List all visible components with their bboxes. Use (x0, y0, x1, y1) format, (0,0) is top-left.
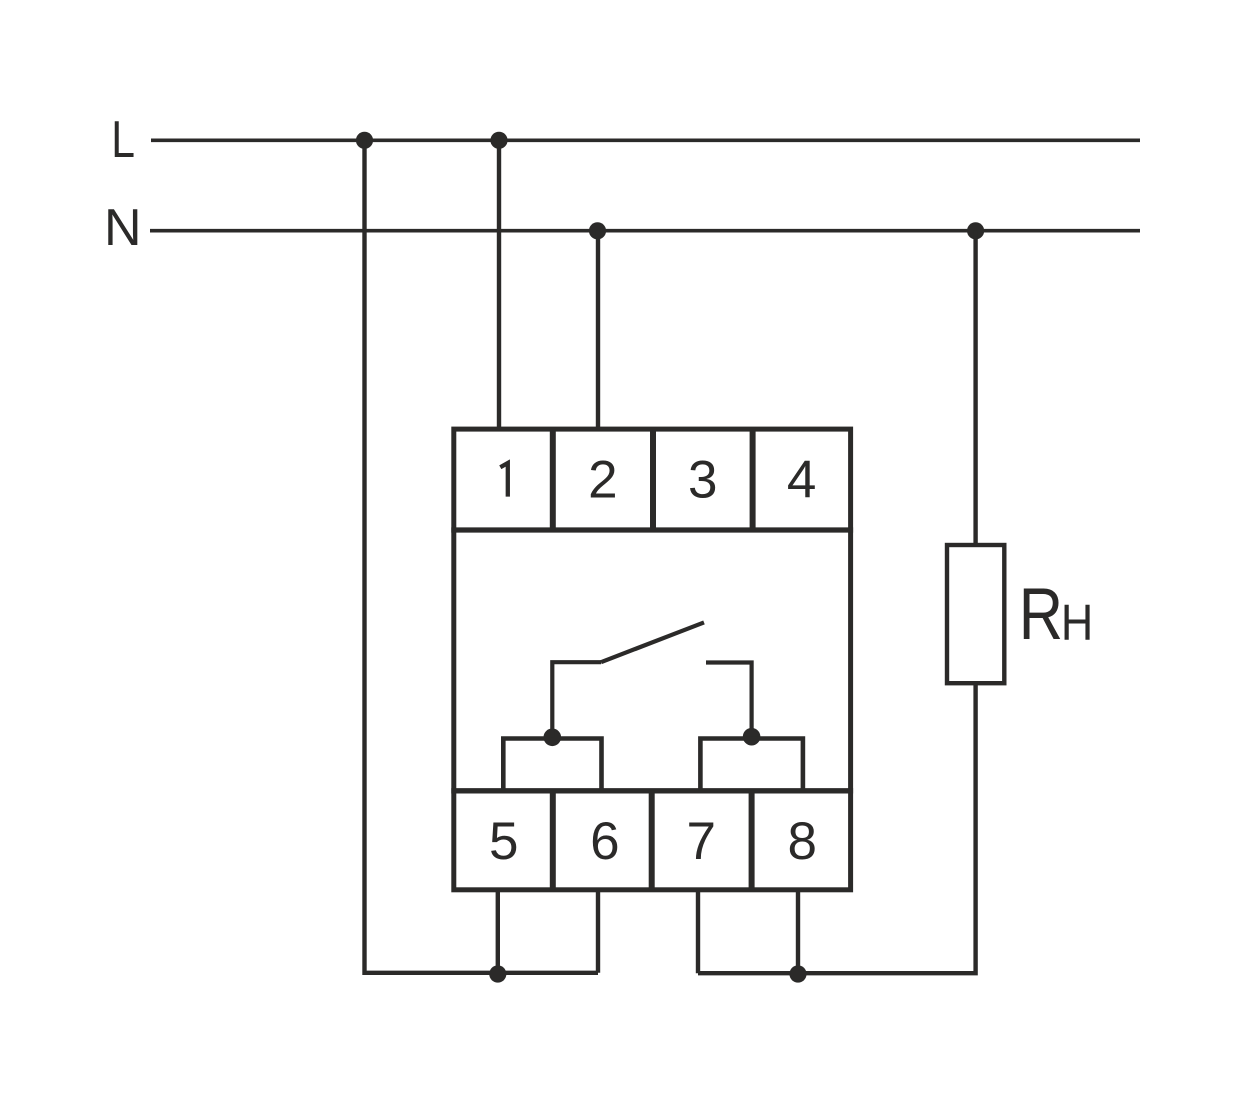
terminal divider 6|7 (649, 791, 655, 890)
wire L to bottom-left bus (long left vertical + bottom horizontal) (365, 140, 599, 973)
wire terminal 7 down (696, 890, 700, 973)
terminal 1 label (500, 463, 508, 497)
wire terminal 8 down (796, 890, 800, 973)
wire terminal 6 down (596, 890, 600, 973)
junction dot on L at x=364 (356, 132, 373, 149)
junction dot bottom-left bus (489, 965, 506, 982)
relay fixed contact wire (706, 663, 752, 737)
terminal divider 2|3 (650, 429, 656, 530)
svg-text:4: 4 (787, 450, 816, 509)
wire L to terminal 1 (497, 140, 501, 429)
junction dot bottom-right bus (789, 965, 806, 982)
device outline box (454, 429, 851, 890)
junction dot on right bracket (743, 728, 761, 746)
svg-text:R: R (1019, 574, 1063, 655)
relay switch pole wire (552, 662, 601, 737)
svg-text:2: 2 (588, 450, 617, 509)
terminal divider 3|4 (750, 429, 756, 530)
relay contact left bracket (terminals 5-6 common) (503, 739, 601, 791)
svg-text:8: 8 (788, 812, 817, 871)
svg-text:3: 3 (688, 450, 717, 509)
svg-text:7: 7 (686, 812, 715, 871)
wire resistor to bottom-right bus (698, 683, 976, 973)
terminal divider 1|2 (550, 429, 556, 530)
relay switch blade (open contact) (601, 622, 704, 662)
wire N to terminal 2 (596, 231, 600, 429)
junction dot on L at x=499 (490, 132, 507, 149)
terminal divider 5|6 (550, 791, 556, 890)
svg-text:6: 6 (590, 812, 619, 871)
svg-text:N: N (104, 199, 142, 257)
junction dot on left bracket (544, 729, 562, 747)
wire L bus (151, 138, 1140, 142)
terminal divider 7|8 (749, 791, 755, 890)
wire terminal 5 down (496, 890, 500, 973)
wire N bus (150, 229, 1140, 233)
svg-text:5: 5 (489, 812, 518, 871)
relay contact right bracket (terminals 7-8 common) (700, 739, 803, 791)
junction dot on N at x=975 (967, 222, 984, 239)
wire N to resistor RH (973, 231, 977, 545)
svg-text:H: H (1061, 595, 1093, 651)
junction dot on N at x=597 (589, 222, 606, 239)
terminal strip top row bottom edge (451, 527, 853, 532)
terminal strip bottom row top edge (451, 788, 853, 793)
svg-text:L: L (111, 111, 135, 169)
resistor RH body (947, 545, 1004, 683)
